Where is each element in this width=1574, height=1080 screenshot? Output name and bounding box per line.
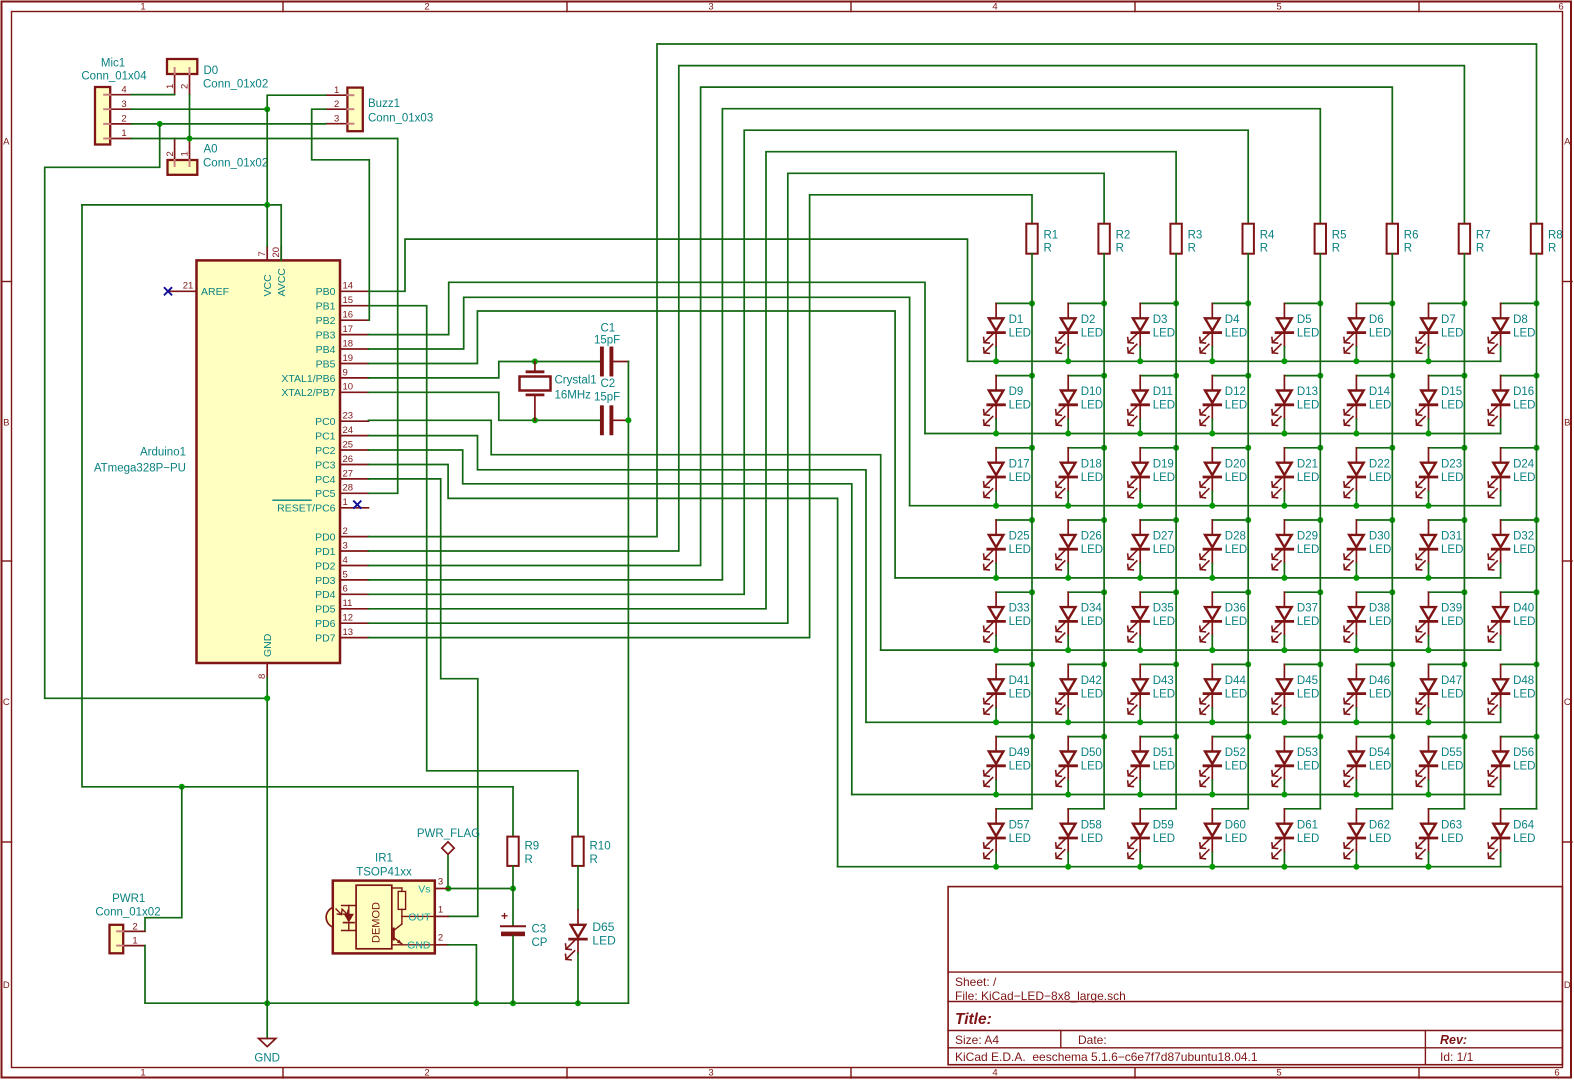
svg-text:LED: LED xyxy=(1441,688,1463,700)
LED D13 xyxy=(1272,376,1320,434)
svg-text:C3: C3 xyxy=(532,924,547,936)
junction column R6 row 3 xyxy=(1389,445,1395,451)
pin 15 PB1 xyxy=(340,305,369,307)
junction column R1 row 1 xyxy=(1029,300,1035,306)
junction column R3 row 1 xyxy=(1173,300,1179,306)
svg-text:D8: D8 xyxy=(1513,314,1528,326)
IR1 pin 3 Vs xyxy=(435,888,448,890)
svg-text:LED: LED xyxy=(592,934,616,948)
svg-text:Conn_01x03: Conn_01x03 xyxy=(368,113,433,125)
svg-text:PD1: PD1 xyxy=(315,546,336,558)
junction column R3 row 3 xyxy=(1173,445,1179,451)
wire IR1 Vs to R9 bottom xyxy=(448,888,513,890)
svg-text:6: 6 xyxy=(1554,1068,1559,1079)
LED D1 xyxy=(984,303,1032,361)
svg-text:LED: LED xyxy=(1009,616,1031,628)
junction A0 net at D0.2 xyxy=(187,136,193,142)
svg-text:D55: D55 xyxy=(1441,747,1462,759)
svg-text:B: B xyxy=(1564,418,1570,429)
wire D0.2 drop xyxy=(189,95,191,139)
LED D17 xyxy=(984,448,1032,506)
junction bus row 5 col 6 xyxy=(1353,647,1359,653)
svg-text:Arduino1: Arduino1 xyxy=(140,447,186,459)
svg-text:LED: LED xyxy=(1513,400,1535,412)
svg-text:16MHz: 16MHz xyxy=(555,389,592,401)
junction column R8 row 2 xyxy=(1534,373,1540,379)
LED D48 xyxy=(1488,664,1536,722)
junction bus row 3 col 3 xyxy=(1137,503,1143,509)
junction column R4 row 5 xyxy=(1245,589,1251,595)
svg-text:R: R xyxy=(525,854,533,866)
wire column 3 vertical xyxy=(1175,254,1177,809)
junction bus row 2 col 5 xyxy=(1281,431,1287,437)
pin 18 PB4 xyxy=(340,348,369,350)
svg-text:R2: R2 xyxy=(1116,229,1131,241)
svg-text:24: 24 xyxy=(343,425,354,436)
pin 10 XTAL2/PB7 xyxy=(340,391,369,393)
junction column R4 row 2 xyxy=(1245,373,1251,379)
junction bus row 3 col 7 xyxy=(1426,503,1432,509)
IR1 lens xyxy=(326,908,333,927)
svg-text:23: 23 xyxy=(343,411,354,422)
pin 26 PC3 xyxy=(340,464,369,466)
junction bus row 5 col 3 xyxy=(1137,647,1143,653)
LED D32 xyxy=(1488,520,1536,578)
no-connect X on RESET/PC6 xyxy=(354,501,361,508)
svg-text:9: 9 xyxy=(343,367,348,378)
svg-text:D53: D53 xyxy=(1297,747,1318,759)
svg-text:LED: LED xyxy=(1369,544,1391,556)
svg-text:LED: LED xyxy=(1009,761,1031,773)
svg-text:PD6: PD6 xyxy=(315,618,336,630)
junction column R8 row 5 xyxy=(1534,589,1540,595)
svg-text:D6: D6 xyxy=(1369,314,1384,326)
resistor R5 R xyxy=(1315,224,1326,254)
svg-text:D37: D37 xyxy=(1297,603,1318,615)
junction column R5 row 2 xyxy=(1317,373,1323,379)
svg-text:Title:: Title: xyxy=(955,1011,992,1028)
resistor R2 R xyxy=(1098,224,1109,254)
svg-text:LED: LED xyxy=(1153,400,1175,412)
svg-text:LED: LED xyxy=(1513,688,1535,700)
junction GND bus at D65 xyxy=(575,1000,581,1006)
svg-text:D29: D29 xyxy=(1297,531,1318,543)
junction bus row 8 col 1 xyxy=(993,864,999,870)
D0 pin 1 xyxy=(174,74,176,95)
wire LED row 7 bus xyxy=(852,794,1501,796)
svg-text:R: R xyxy=(1404,243,1412,255)
svg-text:PB3: PB3 xyxy=(316,330,336,342)
svg-text:D28: D28 xyxy=(1225,531,1246,543)
junction VCC rail at PWR1 branch xyxy=(179,784,185,790)
svg-text:TSOP41xx: TSOP41xx xyxy=(356,866,412,878)
LED D45 xyxy=(1272,664,1320,722)
power flag PWR_FLAG xyxy=(447,854,449,888)
pin 28 PC5 xyxy=(340,492,369,494)
junction bus row 3 col 2 xyxy=(1065,503,1071,509)
junction column R6 row 2 xyxy=(1389,373,1395,379)
svg-text:28: 28 xyxy=(343,483,354,494)
svg-text:LED: LED xyxy=(1225,327,1247,339)
svg-text:D14: D14 xyxy=(1369,386,1391,398)
junction column R3 row 4 xyxy=(1173,517,1179,523)
svg-text:R: R xyxy=(1548,243,1556,255)
svg-text:KiCad E.D.A. eeschema 5.1.6−c: KiCad E.D.A. eeschema 5.1.6−c6e7f7d87ubu… xyxy=(955,1050,1258,1064)
pin 17 PB3 xyxy=(340,334,369,336)
svg-text:D64: D64 xyxy=(1513,819,1535,831)
wire Mic1.4 to D0.1 xyxy=(131,94,174,96)
svg-text:D11: D11 xyxy=(1153,386,1173,398)
LED D22 xyxy=(1344,448,1392,506)
junction bus row 2 col 7 xyxy=(1426,431,1432,437)
junction bus row 7 col 1 xyxy=(993,792,999,798)
Mic1 pin 4 xyxy=(110,94,131,96)
capacitor C1 15pF xyxy=(600,349,604,375)
LED D55 xyxy=(1416,737,1464,795)
junction bus row 8 col 4 xyxy=(1209,864,1215,870)
junction column R7 row 1 xyxy=(1461,300,1467,306)
svg-text:LED: LED xyxy=(1225,833,1247,845)
svg-text:VCC: VCC xyxy=(262,274,274,297)
Mic1 pin 1 xyxy=(110,138,131,140)
svg-text:LED: LED xyxy=(1009,327,1031,339)
svg-text:PC2: PC2 xyxy=(315,445,336,457)
pin 11 PD5 xyxy=(340,608,369,610)
pin 3 PD1 xyxy=(340,550,369,552)
title block row lines xyxy=(948,971,1562,973)
junction column R6 row 1 xyxy=(1389,300,1395,306)
junction column R7 row 6 xyxy=(1461,661,1467,667)
IC U Arduino1 ATmega328P-PU body xyxy=(197,260,341,663)
wire PC1 to LED row6 xyxy=(369,436,867,723)
pin 7 VCC xyxy=(266,246,268,260)
svg-text:D34: D34 xyxy=(1081,603,1103,615)
pin 13 PD7 xyxy=(340,637,369,639)
LED D29 xyxy=(1272,520,1320,578)
svg-text:4: 4 xyxy=(343,555,348,566)
junction bus row 2 col 4 xyxy=(1209,431,1215,437)
IR1 pin 1 OUT xyxy=(435,915,448,917)
svg-text:1: 1 xyxy=(180,151,191,156)
svg-text:LED: LED xyxy=(1009,544,1031,556)
svg-text:19: 19 xyxy=(343,353,354,364)
svg-text:15pF: 15pF xyxy=(594,335,620,347)
pin 24 PC1 xyxy=(340,435,369,437)
svg-text:LED: LED xyxy=(1225,761,1247,773)
junction bus row 3 col 4 xyxy=(1209,503,1215,509)
svg-text:LED: LED xyxy=(1513,472,1535,484)
svg-text:D65: D65 xyxy=(592,920,614,934)
wire PD3 to R5 xyxy=(369,109,1321,580)
Mic1 pin 3 xyxy=(110,108,131,110)
LED D60 xyxy=(1200,809,1248,867)
LED D7 xyxy=(1416,303,1464,361)
svg-text:B: B xyxy=(3,418,9,429)
svg-text:10: 10 xyxy=(343,382,354,393)
svg-text:PB0: PB0 xyxy=(316,286,336,298)
svg-text:D25: D25 xyxy=(1009,531,1030,543)
LED D47 xyxy=(1416,664,1464,722)
svg-text:LED: LED xyxy=(1009,400,1031,412)
junction column R2 row 4 xyxy=(1101,517,1107,523)
svg-text:3: 3 xyxy=(708,1068,713,1079)
wire PC3 to LED row8 xyxy=(369,465,838,867)
junction column R3 row 7 xyxy=(1173,734,1179,740)
LED D19 xyxy=(1128,448,1176,506)
svg-text:Conn_01x02: Conn_01x02 xyxy=(95,906,160,918)
junction bus row 5 col 2 xyxy=(1065,647,1071,653)
junction bus row 4 col 7 xyxy=(1426,575,1432,581)
svg-text:D24: D24 xyxy=(1513,458,1535,470)
IR1 demodulator box xyxy=(356,885,392,949)
svg-text:D38: D38 xyxy=(1369,603,1390,615)
svg-text:1: 1 xyxy=(438,904,443,915)
junction column R1 row 2 xyxy=(1029,373,1035,379)
LED D44 xyxy=(1200,664,1248,722)
LED D39 xyxy=(1416,592,1464,650)
LED D53 xyxy=(1272,737,1320,795)
svg-text:PB2: PB2 xyxy=(316,315,336,327)
LED D34 xyxy=(1056,592,1104,650)
svg-text:26: 26 xyxy=(343,454,354,465)
svg-text:LED: LED xyxy=(1441,400,1463,412)
LED D6 xyxy=(1344,303,1392,361)
svg-text:RESET/PC6: RESET/PC6 xyxy=(277,503,336,515)
LED D8 xyxy=(1488,303,1536,361)
junction column R6 row 6 xyxy=(1389,661,1395,667)
svg-text:14: 14 xyxy=(343,281,354,292)
junction bus row 6 col 7 xyxy=(1426,719,1432,725)
wire PD5 to R3 xyxy=(369,152,1177,609)
connector D0 Conn_01x02 body xyxy=(167,59,197,74)
wire XTAL2 to crystal bottom rail xyxy=(369,392,601,420)
svg-text:LED: LED xyxy=(1441,544,1463,556)
junction column R7 row 7 xyxy=(1461,734,1467,740)
svg-text:D9: D9 xyxy=(1009,386,1024,398)
svg-text:LED: LED xyxy=(1441,327,1463,339)
LED D16 xyxy=(1488,376,1536,434)
svg-text:D36: D36 xyxy=(1225,603,1246,615)
svg-text:17: 17 xyxy=(343,324,354,335)
svg-text:D26: D26 xyxy=(1081,531,1102,543)
wire column 2 vertical xyxy=(1103,254,1105,809)
LED D41 xyxy=(984,664,1032,722)
junction column R1 row 7 xyxy=(1029,734,1035,740)
LED D15 xyxy=(1416,376,1464,434)
LED D49 xyxy=(984,737,1032,795)
LED D63 xyxy=(1416,809,1464,867)
junction column R4 row 7 xyxy=(1245,734,1251,740)
svg-text:2: 2 xyxy=(424,2,429,13)
svg-text:A: A xyxy=(1564,137,1571,148)
svg-text:LED: LED xyxy=(1153,688,1175,700)
svg-text:D7: D7 xyxy=(1441,314,1456,326)
svg-text:LED: LED xyxy=(1081,688,1103,700)
svg-text:LED: LED xyxy=(1153,616,1175,628)
svg-text:D12: D12 xyxy=(1225,386,1246,398)
svg-text:PC3: PC3 xyxy=(315,459,336,471)
svg-text:D: D xyxy=(3,980,10,991)
junction bus row 7 col 6 xyxy=(1353,792,1359,798)
svg-text:13: 13 xyxy=(343,627,354,638)
junction column R1 row 5 xyxy=(1029,589,1035,595)
svg-text:Size: A4: Size: A4 xyxy=(955,1033,999,1047)
wire PB2 to Buzz1.2 xyxy=(312,109,370,320)
junction bus row 3 col 5 xyxy=(1281,503,1287,509)
pin 2 PD0 xyxy=(340,536,369,538)
wire LED row 8 bus xyxy=(838,866,1501,868)
LED D50 xyxy=(1056,737,1104,795)
connector Mic1 Conn_01x04 body xyxy=(95,87,110,145)
junction bus row 1 col 7 xyxy=(1426,358,1432,364)
svg-text:2: 2 xyxy=(334,99,339,110)
svg-text:R: R xyxy=(1332,243,1340,255)
svg-text:R3: R3 xyxy=(1188,229,1203,241)
svg-text:D59: D59 xyxy=(1153,819,1174,831)
junction bus row 8 col 3 xyxy=(1137,864,1143,870)
svg-text:D52: D52 xyxy=(1225,747,1246,759)
svg-text:D46: D46 xyxy=(1369,675,1390,687)
svg-text:LED: LED xyxy=(1225,400,1247,412)
ground symbol GND xyxy=(266,1003,268,1038)
svg-text:R9: R9 xyxy=(525,841,540,853)
wire PWR1.1 to GND bus xyxy=(145,946,629,1004)
junction column R1 row 4 xyxy=(1029,517,1035,523)
svg-text:D45: D45 xyxy=(1297,675,1318,687)
junction column R4 row 6 xyxy=(1245,661,1251,667)
wire PB5 to LED row4 xyxy=(369,311,896,578)
junction bus row 7 col 4 xyxy=(1209,792,1215,798)
svg-text:1: 1 xyxy=(334,85,339,96)
junction column R5 row 1 xyxy=(1317,300,1323,306)
pin 19 PB5 xyxy=(340,363,369,365)
svg-text:R: R xyxy=(1476,243,1484,255)
resistor R6 R xyxy=(1387,224,1398,254)
wire C3 bottom to GND bus xyxy=(512,936,514,1003)
wire VCC rail top xyxy=(82,205,281,261)
junction bus row 7 col 2 xyxy=(1065,792,1071,798)
svg-text:PD4: PD4 xyxy=(315,589,336,601)
D0 pin 2 xyxy=(189,74,191,95)
resistor R3 R xyxy=(1170,224,1181,254)
wire column 5 vertical xyxy=(1319,254,1321,809)
svg-text:GND: GND xyxy=(407,940,431,952)
svg-text:7: 7 xyxy=(257,251,268,256)
pin 21 AREF xyxy=(168,290,197,292)
svg-text:A: A xyxy=(3,137,10,148)
junction bus row 6 col 5 xyxy=(1281,719,1287,725)
svg-text:PB5: PB5 xyxy=(316,358,336,370)
pin 27 PC4 xyxy=(340,478,369,480)
pin 6 PD4 xyxy=(340,593,369,595)
svg-text:R10: R10 xyxy=(590,841,611,853)
junction bus row 5 col 4 xyxy=(1209,647,1215,653)
PWR1 pin 1 xyxy=(123,945,145,947)
IR1 internal resistor xyxy=(392,887,402,889)
LED D9 xyxy=(984,376,1032,434)
junction VCC at Mic1.3 xyxy=(264,106,270,112)
junction column R7 row 5 xyxy=(1461,589,1467,595)
pin 25 PC2 xyxy=(340,449,369,451)
junction column R4 row 3 xyxy=(1245,445,1251,451)
svg-text:2: 2 xyxy=(180,84,191,89)
svg-text:15: 15 xyxy=(343,295,354,306)
svg-text:PC4: PC4 xyxy=(315,474,336,486)
junction column R6 row 4 xyxy=(1389,517,1395,523)
svg-text:D4: D4 xyxy=(1225,314,1240,326)
LED D59 xyxy=(1128,809,1176,867)
LED D65 xyxy=(566,910,587,960)
svg-text:LED: LED xyxy=(1369,761,1391,773)
svg-text:GND: GND xyxy=(254,1053,280,1065)
LED D30 xyxy=(1344,520,1392,578)
Buzz1 pin 2 xyxy=(326,108,348,110)
svg-text:2: 2 xyxy=(424,1068,429,1079)
svg-text:LED: LED xyxy=(1513,544,1535,556)
svg-text:PWR1: PWR1 xyxy=(112,893,145,905)
wire VCC pin7 riser xyxy=(266,205,268,246)
svg-text:5: 5 xyxy=(1276,1068,1281,1079)
svg-text:1: 1 xyxy=(343,497,348,508)
svg-text:LED: LED xyxy=(1297,327,1319,339)
junction bus row 4 col 3 xyxy=(1137,575,1143,581)
svg-text:D5: D5 xyxy=(1297,314,1312,326)
junction crystal top xyxy=(532,359,538,365)
junction bus row 8 col 5 xyxy=(1281,864,1287,870)
svg-text:2: 2 xyxy=(165,151,176,156)
svg-text:D18: D18 xyxy=(1081,458,1102,470)
LED D21 xyxy=(1272,448,1320,506)
svg-text:File: KiCad−LED−8x8_large.sch: File: KiCad−LED−8x8_large.sch xyxy=(955,989,1126,1003)
LED D33 xyxy=(984,592,1032,650)
svg-text:D43: D43 xyxy=(1153,675,1174,687)
svg-text:4: 4 xyxy=(121,84,126,95)
LED D37 xyxy=(1272,592,1320,650)
svg-text:LED: LED xyxy=(1441,472,1463,484)
wire PC2 to LED row7 xyxy=(369,450,852,795)
junction column R8 row 6 xyxy=(1534,661,1540,667)
svg-text:D40: D40 xyxy=(1513,603,1534,615)
junction column R6 row 7 xyxy=(1389,734,1395,740)
junction R9 bottom at Vs xyxy=(510,886,516,892)
wire PB4 to LED row3 xyxy=(369,297,910,505)
svg-text:D60: D60 xyxy=(1225,819,1246,831)
svg-text:LED: LED xyxy=(1297,616,1319,628)
resistor R8 R xyxy=(1531,224,1542,254)
junction VCC rail at pin7 xyxy=(264,202,270,208)
svg-text:R: R xyxy=(1116,243,1124,255)
svg-text:D50: D50 xyxy=(1081,747,1102,759)
svg-text:Conn_01x02: Conn_01x02 xyxy=(203,157,268,169)
wire D65 cathode to GND bus xyxy=(577,954,579,1004)
svg-text:LED: LED xyxy=(1081,400,1103,412)
svg-text:D10: D10 xyxy=(1081,386,1102,398)
junction bus row 8 col 6 xyxy=(1353,864,1359,870)
wire XTAL1 to crystal top rail xyxy=(369,362,602,378)
Mic1 pin 2 xyxy=(110,123,131,125)
border column ticks xyxy=(282,2,284,12)
svg-text:PC1: PC1 xyxy=(315,431,336,443)
wire IR1 GND to bus xyxy=(448,945,476,1003)
pin 4 PD2 xyxy=(340,565,369,567)
svg-text:16: 16 xyxy=(343,310,354,321)
junction bus row 7 col 7 xyxy=(1426,792,1432,798)
svg-text:5: 5 xyxy=(343,569,348,580)
IR1 photodiode xyxy=(344,914,354,923)
junction column R3 row 2 xyxy=(1173,373,1179,379)
wire R10 bottom to D65 xyxy=(577,866,579,910)
junction column R5 row 6 xyxy=(1317,661,1323,667)
